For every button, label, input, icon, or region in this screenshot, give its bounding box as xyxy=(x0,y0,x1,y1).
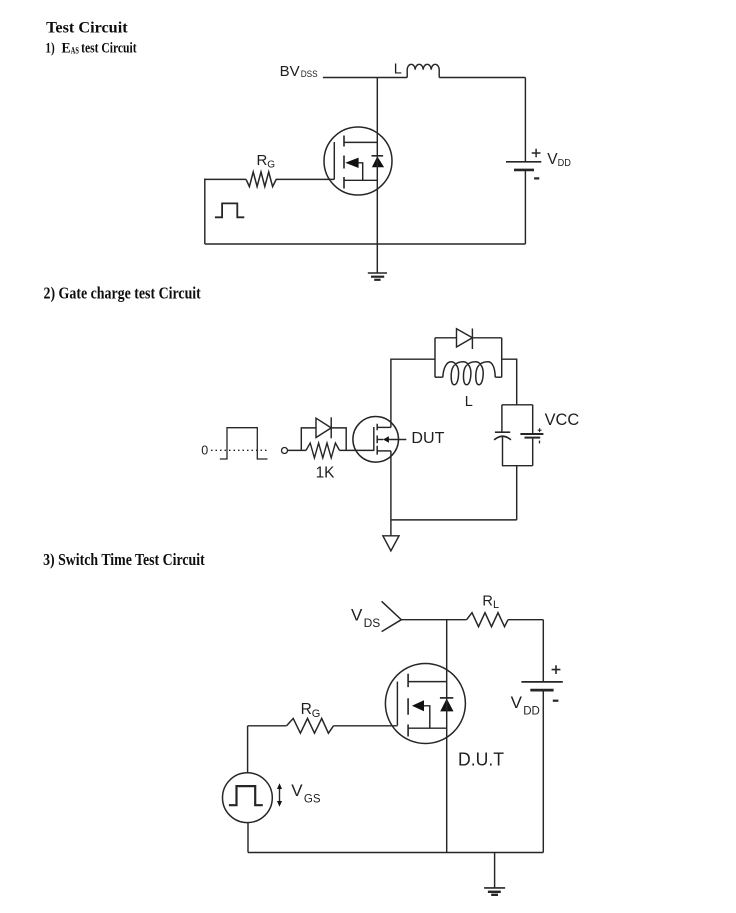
Q1 gate bar xyxy=(333,142,335,179)
probe chevron VDS c3 xyxy=(382,601,402,631)
wire gate right c3 xyxy=(334,725,398,727)
wire gate left c3 xyxy=(248,725,287,727)
svg-text:test Circuit: test Circuit xyxy=(81,40,137,56)
battery VDD c3 xyxy=(521,665,562,701)
wire terminal to resistor c2 xyxy=(288,449,307,451)
wire left vertical lower c3 xyxy=(247,823,249,853)
wire source down c2 xyxy=(390,451,392,520)
label RL c3 xyxy=(482,594,499,611)
label VDD c1 xyxy=(547,151,571,169)
wire top left c1 xyxy=(323,77,407,79)
DUT gate bar c2 xyxy=(373,427,375,451)
svg-text:AS: AS xyxy=(71,45,79,55)
diode D1 bypass c2 xyxy=(301,417,346,450)
pulse waveform c2 xyxy=(220,428,268,459)
source VGS circle c3 xyxy=(223,773,273,823)
wire vcc down c2 xyxy=(516,466,518,520)
svg-text:R: R xyxy=(301,701,312,718)
DUT body arrow pointer c2 xyxy=(377,436,406,443)
svg-text:GS: GS xyxy=(304,793,321,805)
Q1 source stub xyxy=(344,179,377,181)
DUT3 body diode xyxy=(440,698,454,712)
DUT source stub c2 xyxy=(377,450,391,452)
DUT3 body arrow xyxy=(412,700,430,728)
wire bottom c1 xyxy=(205,243,526,245)
svg-text:1K: 1K xyxy=(316,465,335,482)
transistor Q1 circle xyxy=(324,127,392,195)
svg-text:VCC: VCC xyxy=(545,411,580,429)
svg-text:DS: DS xyxy=(364,616,381,630)
parallel block frame c2 xyxy=(435,338,502,377)
svg-text:0: 0 xyxy=(201,443,208,457)
diode D2 freewheel c2 xyxy=(435,329,502,350)
Q1 body arrow xyxy=(345,158,362,181)
resistor RG c3 xyxy=(287,718,334,733)
wire resistor to gate c2 xyxy=(340,449,374,451)
svg-text:R: R xyxy=(482,594,492,610)
svg-text:L: L xyxy=(465,394,473,410)
wire left vertical c1 xyxy=(204,179,206,245)
svg-text:DSS: DSS xyxy=(301,69,318,80)
svg-text:3) Switch Time Test Circuit: 3) Switch Time Test Circuit xyxy=(43,550,205,569)
input terminal c2 xyxy=(282,448,288,454)
Q1 channel dashes xyxy=(343,136,345,189)
double arrow VGS c3 xyxy=(277,783,282,806)
inductor L c1 xyxy=(407,64,439,77)
pulse source c1 xyxy=(215,203,244,217)
svg-text:DD: DD xyxy=(523,705,540,717)
wire right vertical bottom c3 xyxy=(542,690,544,852)
resistor RG c1 xyxy=(246,172,279,187)
wire drain up c2 xyxy=(391,359,435,427)
wire top c3 xyxy=(401,619,543,621)
svg-text:G: G xyxy=(312,708,321,720)
wire left vertical upper c3 xyxy=(247,726,249,773)
DUT3 gate bar xyxy=(396,682,398,726)
ground arrow c2 xyxy=(383,520,399,551)
svg-text:L: L xyxy=(394,62,402,78)
label RG c3 xyxy=(301,701,321,720)
DUT channel dashes c2 xyxy=(376,424,378,455)
transistor DUT circle c3 xyxy=(385,664,465,744)
wire gate left c1 xyxy=(205,178,246,180)
wire bottom c2 xyxy=(391,519,517,521)
pulse in VGS c3 xyxy=(229,786,263,805)
wire drain vertical c1 xyxy=(376,78,378,274)
resistor 1K c2 xyxy=(306,443,340,458)
svg-text:V: V xyxy=(511,693,523,712)
resistor RL c3 xyxy=(467,613,508,627)
wire block to vcc c2 xyxy=(502,359,517,405)
svg-text:V: V xyxy=(351,606,363,625)
heading 1) EAS test Circuit xyxy=(45,40,136,56)
wire drain vertical c3 xyxy=(446,620,448,853)
svg-text:Test Circuit: Test Circuit xyxy=(46,20,128,37)
transistor DUT circle c2 xyxy=(353,417,399,463)
ground c1 xyxy=(368,273,387,280)
svg-text:L: L xyxy=(493,599,499,611)
DUT drain stub c2 xyxy=(377,426,391,428)
svg-text:1): 1) xyxy=(45,40,54,56)
wire right vertical bottom c1 xyxy=(524,170,526,244)
Q1 drain stub xyxy=(344,141,377,143)
svg-text:D.U.T: D.U.T xyxy=(458,750,504,770)
label VDD c3 xyxy=(511,693,540,718)
wire right vertical top c1 xyxy=(524,78,526,162)
label VGS c3 xyxy=(291,781,321,805)
svg-text:DD: DD xyxy=(558,158,571,169)
svg-text:V: V xyxy=(291,781,303,800)
battery VDD c1 xyxy=(506,149,541,179)
wire right vertical top c3 xyxy=(542,620,544,682)
svg-text:BV: BV xyxy=(280,63,300,80)
DUT3 drain stub xyxy=(408,681,447,683)
wire bottom c3 xyxy=(248,852,543,854)
label RG c1 xyxy=(257,152,276,170)
dotted zero line c2 xyxy=(211,449,268,451)
wire top right c1 xyxy=(439,77,525,79)
DUT3 channel dashes xyxy=(407,674,409,737)
svg-text:V: V xyxy=(547,151,558,168)
svg-text:G: G xyxy=(267,160,275,171)
svg-text:2) Gate charge test Circuit: 2) Gate charge test Circuit xyxy=(44,284,202,303)
Q1 body diode xyxy=(372,156,385,168)
svg-text:DUT: DUT xyxy=(411,430,444,447)
svg-text:E: E xyxy=(62,40,71,56)
wire gate right c1 xyxy=(279,178,334,180)
inductor L c2 xyxy=(435,362,502,385)
ground c3 xyxy=(484,853,505,895)
battery VCC plates c2 xyxy=(520,428,543,443)
label VDS c3 xyxy=(351,606,380,630)
VCC box c2 xyxy=(502,405,533,466)
capacitor C1 c2 xyxy=(494,432,511,440)
DUT3 source stub xyxy=(408,727,447,729)
node BVDSS label xyxy=(280,63,318,80)
svg-text:R: R xyxy=(257,152,268,169)
